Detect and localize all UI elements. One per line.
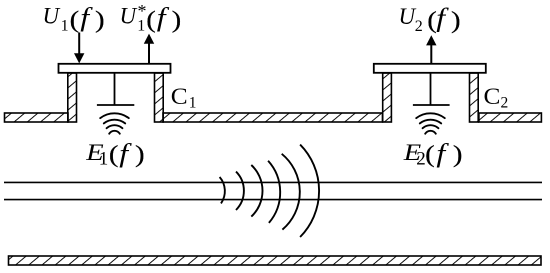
svg-text:(: ( (109, 140, 119, 167)
svg-text:(: ( (70, 6, 80, 33)
label U1(f) (43, 3, 105, 34)
svg-text:C: C (171, 84, 188, 110)
svg-text:2: 2 (415, 18, 423, 35)
svg-text:*: * (138, 1, 147, 21)
capacitor C2 left post (383, 73, 392, 122)
E-field arcs E2 (416, 113, 445, 133)
svg-text:(: ( (425, 140, 435, 167)
label C2 (484, 84, 509, 111)
capacitor C2 top plate (374, 64, 486, 73)
label C1 (171, 84, 197, 111)
capacitor C1 electrode plate (97, 104, 134, 106)
arrow U2 output (up arrow) (426, 35, 436, 63)
wire wall-middle-segment (hatched duct top wall, between C1 and C2) (163, 113, 383, 122)
svg-text:): ) (451, 6, 461, 33)
wire wall-right-segment (hatched duct top wall, right) (479, 113, 542, 122)
svg-text:f: f (436, 139, 449, 168)
capacitor C2 electrode plate (413, 104, 450, 106)
svg-text:f: f (157, 4, 170, 33)
wire wall-left-segment (hatched duct top wall, left) (5, 113, 69, 122)
svg-text:f: f (119, 139, 132, 168)
arrow U1* output (up arrow) (144, 34, 154, 64)
capacitor C1 electrode stem (114, 73, 116, 105)
wire duct bottom wall (hatched) (9, 256, 542, 265)
svg-text:U: U (43, 3, 61, 28)
label U2(f) (399, 4, 461, 35)
capacitor C1 left post (68, 73, 77, 122)
svg-text:): ) (95, 6, 105, 33)
svg-text:U: U (120, 3, 138, 28)
wire membrane upper line (4, 181, 542, 183)
svg-text:2: 2 (501, 94, 509, 111)
label E1(f) (85, 139, 144, 169)
svg-text:): ) (172, 6, 182, 33)
svg-text:C: C (484, 84, 501, 110)
svg-text:(: ( (146, 6, 156, 33)
capacitor C2 right post (470, 73, 479, 122)
svg-text:f: f (80, 4, 93, 33)
wire membrane lower line (4, 199, 542, 201)
capacitor C2 electrode stem (430, 73, 432, 105)
sound wavefront arcs (220, 145, 319, 237)
arrow U1 input (down arrow) (74, 33, 84, 64)
label U1*(f) (120, 1, 182, 35)
svg-text:): ) (135, 140, 145, 167)
svg-text:1: 1 (61, 18, 69, 35)
capacitor C1 top plate (59, 64, 171, 73)
capacitor C1 right post (155, 73, 164, 122)
E-field arcs E1 (100, 113, 129, 133)
svg-text:1: 1 (189, 94, 197, 111)
svg-text:): ) (453, 140, 463, 167)
svg-text:f: f (436, 4, 449, 33)
svg-text:1: 1 (99, 148, 109, 169)
label E2(f) (403, 139, 463, 169)
